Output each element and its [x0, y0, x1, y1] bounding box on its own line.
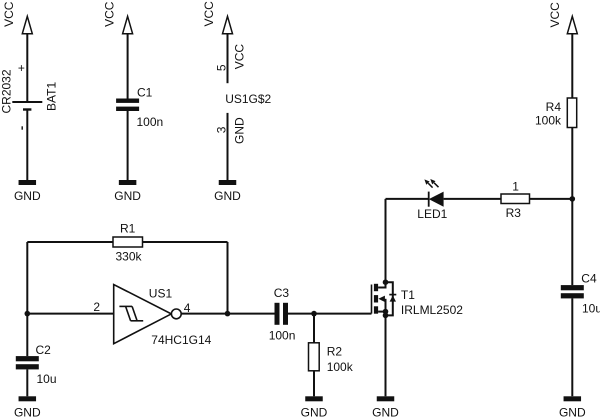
svg-text:100k: 100k [327, 360, 354, 374]
svg-text:VCC: VCC [2, 1, 16, 27]
wire C2 to GND [26, 369, 28, 396]
wire VCC to C1 [127, 34, 129, 99]
svg-text:US1G$2: US1G$2 [225, 92, 271, 106]
resistor R4 [567, 98, 576, 128]
svg-text:GND: GND [301, 405, 328, 417]
ground (C1) [119, 180, 137, 185]
wire R3 to node [530, 198, 573, 200]
transistor T1 drain connection [378, 282, 385, 287]
label C2 [36, 343, 52, 357]
svg-text:VCC: VCC [548, 2, 562, 28]
wire T1 drain up [385, 199, 387, 282]
label 100n [269, 328, 296, 342]
label + [18, 61, 25, 75]
label 100k [327, 360, 354, 374]
wire substrate/source down [385, 299, 387, 397]
supply VCC (R4 column) [567, 16, 577, 33]
svg-text:GND: GND [559, 405, 586, 417]
ground (US1G$2) [219, 180, 237, 185]
pin number 3 [214, 126, 228, 133]
node R3/R4/C4 junction [570, 196, 576, 202]
label 10u [37, 372, 57, 386]
svg-text:US1: US1 [149, 287, 173, 301]
pin name VCC [233, 44, 247, 70]
wire LED to R3 [444, 198, 501, 200]
wire R1 to feedback corner [143, 241, 228, 243]
label 330k [116, 250, 143, 264]
resistor R2 [309, 343, 320, 371]
label 10u [582, 302, 600, 316]
pin number 1 [512, 180, 519, 194]
svg-text:2: 2 [93, 300, 100, 314]
wire C3 to gate [288, 313, 372, 315]
label VCC [2, 1, 16, 27]
wire left vertical (feedback to C2) [26, 242, 28, 356]
label GND [372, 405, 399, 417]
wire VCC to BAT1 + [26, 34, 28, 102]
label R3 [506, 206, 522, 220]
transistor T1 channel dashes [374, 284, 378, 314]
svg-text:1: 1 [512, 180, 519, 194]
svg-text:VCC: VCC [102, 1, 116, 27]
label CR2032 [0, 69, 13, 113]
node T1 source bottom [383, 313, 389, 319]
wire node to C4 [571, 199, 573, 285]
svg-text:R3: R3 [506, 206, 522, 220]
ground (T1 source) [377, 396, 395, 401]
label GND [559, 405, 586, 417]
label 74HC1G14 [151, 333, 211, 347]
node output junction [225, 311, 231, 317]
svg-text:5: 5 [214, 64, 228, 71]
inverter US1 74HC1G14 [114, 285, 172, 344]
svg-text:10u: 10u [37, 372, 57, 386]
wire R2 to GND [313, 371, 315, 397]
svg-text:100n: 100n [269, 328, 296, 342]
label 100n [137, 115, 164, 129]
supply VCC (US1 power column) [223, 16, 233, 33]
LED LED1 cathode bar [428, 192, 430, 207]
label C4 [581, 272, 597, 286]
wire pin 3 to GND [227, 113, 229, 180]
svg-text:GND: GND [232, 117, 246, 144]
svg-text:10u: 10u [582, 302, 600, 316]
svg-text:3: 3 [214, 126, 228, 133]
transistor T1 gate bar [371, 285, 373, 314]
svg-text:GND: GND [14, 405, 41, 417]
label BAT1 [44, 82, 58, 111]
svg-text:CR2032: CR2032 [0, 69, 13, 113]
svg-text:IRLML2502: IRLML2502 [401, 303, 463, 317]
schmitt hysteresis symbol [119, 306, 143, 320]
node T1 source top [383, 309, 389, 315]
supply VCC (C1 column) [123, 16, 133, 33]
body diode triangle [390, 296, 396, 302]
feedback wire top [27, 241, 113, 243]
svg-text:VCC: VCC [202, 1, 216, 27]
inverter output bubble [171, 309, 181, 319]
wire VCC to R4 [571, 34, 573, 98]
wire C4 to GND [571, 298, 573, 396]
capacitor C3 [275, 303, 289, 325]
svg-text:C1: C1 [137, 86, 153, 100]
label US1 [149, 287, 173, 301]
LED LED1 triangle [429, 192, 444, 207]
label C1 [137, 86, 153, 100]
label R1 [120, 221, 136, 235]
node input junction [25, 311, 31, 317]
svg-text:+: + [18, 61, 25, 75]
label VCC [102, 1, 116, 27]
svg-text:T1: T1 [401, 288, 415, 302]
label GND [14, 405, 41, 417]
wire BAT1 - to GND [26, 110, 28, 181]
svg-text:100n: 100n [137, 115, 164, 129]
resistor R1 [113, 237, 143, 247]
wire R4 to node [571, 128, 573, 199]
svg-text:C4: C4 [581, 272, 597, 286]
svg-text:GND: GND [14, 189, 41, 203]
capacitor C1 [116, 99, 139, 112]
svg-text:GND: GND [114, 189, 141, 203]
capacitor C2 [16, 356, 39, 369]
pin number 2 [93, 300, 100, 314]
label VCC [548, 2, 562, 28]
ground (C4) [564, 396, 582, 401]
node gate junction [311, 311, 317, 317]
label - [22, 126, 23, 129]
LED1 light arrows [428, 183, 438, 188]
svg-text:VCC: VCC [233, 44, 247, 70]
supply VCC (BAT1 column) [22, 16, 32, 33]
wire drain corner to LED [386, 198, 429, 200]
wire output [181, 313, 274, 315]
wire node to R2 [313, 314, 315, 343]
label IRLML2502 [401, 303, 463, 317]
svg-text:R1: R1 [120, 221, 136, 235]
svg-text:R4: R4 [546, 100, 562, 114]
label GND [214, 189, 241, 203]
transistor T1 substrate arrow [378, 296, 385, 302]
label GND [14, 189, 41, 203]
label R2 [327, 345, 343, 359]
svg-text:74HC1G14: 74HC1G14 [151, 333, 211, 347]
transistor T1 source connection [378, 311, 385, 313]
label LED1 [417, 207, 447, 221]
IC power part US1G$2 [225, 92, 271, 106]
node T1 drain [383, 279, 389, 285]
battery BAT1 [12, 102, 42, 110]
label C3 [274, 286, 290, 300]
svg-text:LED1: LED1 [417, 207, 447, 221]
body diode cathode bar [389, 294, 396, 296]
wire C1 to GND [127, 111, 129, 180]
svg-text:C2: C2 [36, 343, 52, 357]
svg-text:R2: R2 [327, 345, 343, 359]
ground (BAT1) [19, 180, 37, 185]
label GND [114, 189, 141, 203]
label GND [301, 405, 328, 417]
pin name GND [232, 117, 246, 144]
svg-text:GND: GND [372, 405, 399, 417]
svg-text:GND: GND [214, 189, 241, 203]
label R4 [546, 100, 562, 114]
svg-text:C3: C3 [274, 286, 290, 300]
label 100k [535, 114, 562, 128]
pin number 5 [214, 64, 228, 71]
label VCC [202, 1, 216, 27]
transistor T1 body diode branch [386, 282, 393, 315]
ground (R2) [305, 396, 323, 401]
svg-text:330k: 330k [116, 250, 143, 264]
wire feedback vertical [227, 242, 229, 314]
ground (C2) [19, 396, 37, 401]
wire VCC to pin 5 [227, 34, 229, 83]
pin number 4 [184, 301, 191, 315]
capacitor C4 [561, 285, 584, 298]
svg-text:BAT1: BAT1 [44, 82, 58, 111]
wire input to inverter [27, 313, 113, 315]
resistor R3 [501, 194, 530, 204]
svg-text:100k: 100k [535, 114, 562, 128]
label T1 [401, 288, 415, 302]
